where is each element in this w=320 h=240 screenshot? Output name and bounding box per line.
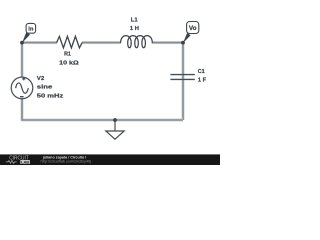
- footer CircuitLab logo LAB box: [20, 160, 30, 164]
- ground: [106, 120, 124, 139]
- node Vo flag tail: [183, 33, 191, 43]
- wire left vertical upper (node in to V2): [21, 43, 24, 78]
- svg-text:in: in: [28, 27, 34, 33]
- wire right vertical upper (node Vo to C1): [182, 43, 185, 120]
- svg-text:juliano zapata / Circuito I: juliano zapata / Circuito I: [42, 155, 87, 159]
- node Vo flag box: [187, 22, 199, 34]
- svg-text:LAB: LAB: [21, 160, 29, 164]
- svg-text:sine: sine: [37, 85, 54, 91]
- footer CircuitLab logo zigzag: [6, 160, 17, 163]
- capacitor C1: [170, 75, 194, 80]
- wire from V2 down and bottom rail: [22, 98, 183, 120]
- svg-text:10 kΩ: 10 kΩ: [59, 61, 79, 67]
- inductor L1: [121, 36, 153, 48]
- footer bar: [0, 154, 220, 165]
- svg-text:V2: V2: [37, 76, 45, 82]
- svg-text:L1: L1: [131, 17, 139, 23]
- node Vo junction dot: [181, 41, 185, 45]
- wire top horizontal middle (R1 to L1): [82, 41, 121, 44]
- wire top horizontal right (L1 to node Vo): [152, 41, 183, 44]
- node in junction dot: [20, 41, 24, 45]
- resistor R1: [57, 36, 83, 48]
- svg-text:50 mHz: 50 mHz: [37, 93, 64, 99]
- svg-text:1 F: 1 F: [198, 78, 207, 84]
- voltage source V2: [11, 77, 33, 99]
- wire top horizontal left (node in to R1): [22, 41, 57, 44]
- svg-text:Vo: Vo: [189, 26, 197, 32]
- node in flag box: [26, 23, 35, 33]
- svg-text:R1: R1: [64, 52, 72, 58]
- ground junction dot: [113, 118, 117, 122]
- svg-text:http://circuitlab.com/circ6sy4: http://circuitlab.com/circ6sy49j: [41, 160, 92, 164]
- svg-text:C1: C1: [198, 69, 206, 75]
- svg-text:1 H: 1 H: [130, 26, 139, 32]
- node in flag tail: [22, 32, 30, 43]
